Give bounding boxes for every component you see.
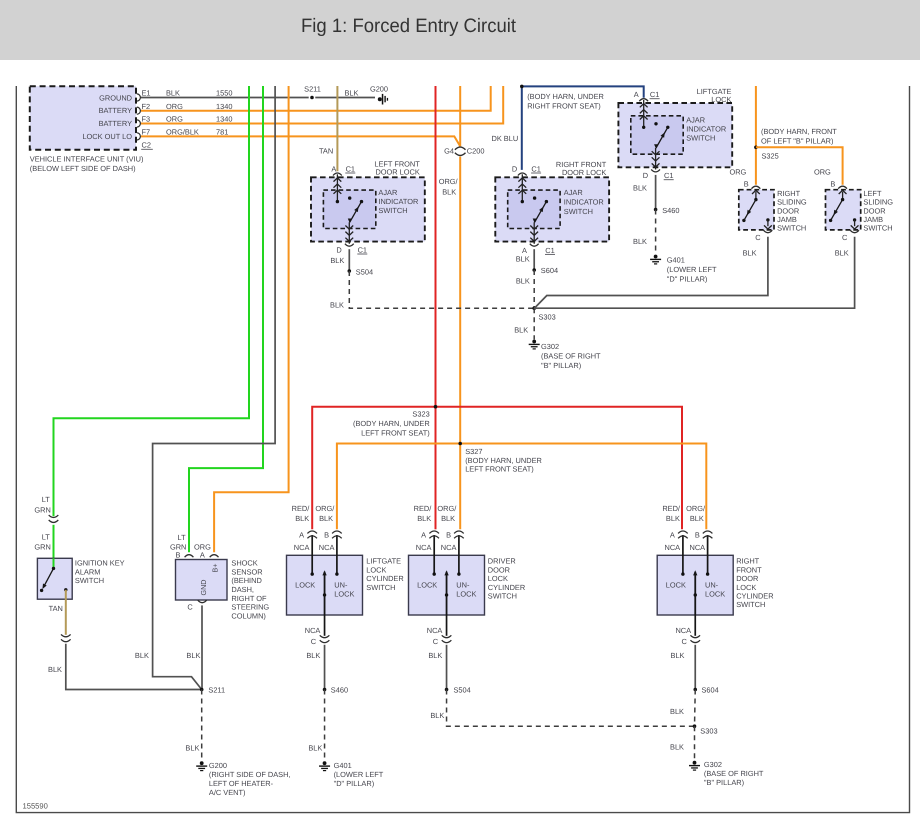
- wire shock sensor C to S211: [186, 605, 202, 689]
- liftgate lock cylinder switch inline connector B: [332, 531, 342, 538]
- right front door lock cylinder switch A drop wire: [682, 535, 684, 574]
- svg-text:RED/: RED/: [292, 504, 311, 513]
- wire F7 ORG/BLK to C200: [141, 136, 460, 146]
- svg-text:"D" PILLAR): "D" PILLAR): [667, 274, 708, 283]
- left sliding door jamb switch chevron: [839, 190, 847, 199]
- left front door lock ajar inner box: [323, 190, 375, 228]
- left front door lock top chevrons: [334, 174, 342, 201]
- right front door lock labels: [512, 160, 607, 216]
- svg-text:BATTERY: BATTERY: [99, 106, 132, 115]
- connector C200 G4: [444, 147, 484, 156]
- left sliding door jamb switch box: [826, 190, 861, 230]
- svg-text:781: 781: [216, 128, 228, 137]
- svg-text:BLK: BLK: [295, 514, 309, 523]
- liftgate lock cylinder switch B drop wire: [336, 535, 338, 574]
- wire F2 ORG: [141, 86, 491, 111]
- svg-text:BLK: BLK: [671, 651, 685, 660]
- svg-text:S211: S211: [208, 686, 225, 695]
- svg-text:UN-: UN-: [334, 581, 348, 590]
- svg-text:SWITCH: SWITCH: [564, 207, 593, 216]
- right front cylinder name: [736, 557, 773, 610]
- svg-text:ORG: ORG: [166, 102, 183, 111]
- splice S211 bottom: [200, 686, 225, 695]
- svg-text:SHOCK: SHOCK: [231, 559, 257, 568]
- svg-text:CYLINDER: CYLINDER: [736, 592, 773, 601]
- left sliding door jamb switch blade: [829, 198, 844, 222]
- svg-text:ORG: ORG: [729, 168, 746, 177]
- sheet number 155590: [23, 802, 48, 811]
- right front door lock cylinder switch contacts: [681, 572, 709, 575]
- svg-text:GRN: GRN: [34, 505, 50, 514]
- svg-text:UN-: UN-: [456, 581, 470, 590]
- svg-text:LIFTGATE: LIFTGATE: [366, 557, 401, 566]
- wire LT GRN bus A ignition: [54, 86, 250, 516]
- left sliding door jamb switch pin arc B: [838, 186, 847, 189]
- svg-text:ALARM: ALARM: [75, 567, 100, 576]
- right sliding door jamb switch chevron: [752, 190, 760, 199]
- inline connector LT GRN: [49, 515, 59, 522]
- svg-text:A/C VENT): A/C VENT): [209, 788, 246, 797]
- svg-text:1340: 1340: [216, 115, 232, 124]
- svg-text:BATTERY: BATTERY: [99, 119, 132, 128]
- liftgate lock pin arc top: [639, 99, 648, 102]
- svg-text:STEERING: STEERING: [231, 603, 269, 612]
- splice S504 bottom: [445, 686, 471, 695]
- splice S325: [754, 146, 779, 161]
- svg-text:LOCK: LOCK: [488, 574, 508, 583]
- svg-text:SWITCH: SWITCH: [863, 224, 892, 233]
- svg-text:(BASE OF RIGHT: (BASE OF RIGHT: [541, 352, 601, 361]
- svg-text:(BASE OF RIGHT: (BASE OF RIGHT: [704, 769, 764, 778]
- wire S504 to S303 dashed: [349, 271, 534, 308]
- svg-text:LEFT FRONT SEAT): LEFT FRONT SEAT): [465, 465, 534, 474]
- right front door lock ajar inner box: [508, 190, 560, 228]
- svg-text:RED/: RED/: [414, 504, 433, 513]
- svg-text:AJAR: AJAR: [564, 188, 583, 197]
- svg-text:S504: S504: [356, 268, 373, 277]
- LT GRN labels lower: [34, 533, 50, 552]
- svg-text:Fig 1: Forced Entry Circuit: Fig 1: Forced Entry Circuit: [301, 15, 517, 37]
- svg-text:A: A: [634, 90, 639, 99]
- svg-text:F2: F2: [142, 102, 151, 111]
- wire RED S323 bus: [312, 407, 682, 530]
- svg-text:C: C: [842, 233, 848, 242]
- svg-text:B: B: [446, 531, 451, 540]
- splice S460 bottom: [323, 686, 348, 695]
- svg-text:NCA: NCA: [294, 543, 310, 552]
- svg-text:NCA: NCA: [416, 543, 432, 552]
- wire S460 to G401 dashed: [633, 210, 656, 255]
- body harn right front seat caption: [527, 92, 604, 110]
- svg-text:(RIGHT SIDE OF DASH,: (RIGHT SIDE OF DASH,: [209, 770, 291, 779]
- right front door lock cylinder switch pin labels: [662, 504, 706, 660]
- svg-text:F7: F7: [142, 128, 151, 137]
- svg-text:GRN: GRN: [34, 542, 50, 551]
- svg-text:LOCK: LOCK: [711, 95, 731, 104]
- ORG/BLK wire label: [439, 177, 459, 197]
- right front door lock bottom labels: [516, 246, 555, 264]
- svg-text:DOOR: DOOR: [736, 574, 758, 583]
- svg-text:SWITCH: SWITCH: [366, 583, 395, 592]
- svg-text:NCA: NCA: [689, 543, 705, 552]
- wire right jamb C to S303: [534, 237, 768, 308]
- svg-text:RIGHT OF: RIGHT OF: [231, 594, 267, 603]
- right front door lock top chevrons: [518, 174, 526, 201]
- right front door lock pin arc bottom: [530, 244, 539, 247]
- svg-text:G4: G4: [444, 147, 454, 156]
- svg-text:AJAR: AJAR: [378, 188, 397, 197]
- svg-text:IGNITION KEY: IGNITION KEY: [75, 559, 125, 568]
- svg-text:LOCK: LOCK: [334, 589, 354, 598]
- right front door lock cylinder switch wire C to splice: [694, 645, 696, 690]
- liftgate lock cylinder switch box: [287, 555, 363, 615]
- svg-text:LOCK: LOCK: [295, 581, 315, 590]
- shock sensor rotated pin names: [199, 564, 220, 596]
- driver door lock cylinder switch B drop wire: [458, 535, 460, 574]
- wire ORG C200 upper: [459, 86, 461, 146]
- svg-text:ORG: ORG: [194, 542, 211, 551]
- svg-text:RIGHT FRONT SEAT): RIGHT FRONT SEAT): [527, 101, 601, 110]
- svg-text:FRONT: FRONT: [736, 565, 762, 574]
- svg-text:NCA: NCA: [664, 543, 680, 552]
- left front door lock labels: [331, 160, 420, 216]
- shock sensor labels: [170, 533, 269, 621]
- wire TAN bus: [319, 86, 337, 171]
- wire E1 BLK 1550 ground wire: [141, 97, 375, 99]
- wire ORG bus right S325: [755, 86, 757, 185]
- svg-text:LEFT FRONT SEAT): LEFT FRONT SEAT): [361, 428, 430, 437]
- svg-text:ORG/: ORG/: [686, 504, 706, 513]
- svg-text:C1: C1: [545, 246, 554, 255]
- svg-text:C200: C200: [467, 147, 485, 156]
- svg-text:NCA: NCA: [305, 626, 321, 635]
- svg-text:INDICATOR: INDICATOR: [378, 197, 418, 206]
- svg-text:GRN: GRN: [170, 542, 186, 551]
- svg-text:BLK: BLK: [442, 187, 456, 196]
- left sliding door jamb switch C contact: [851, 218, 859, 229]
- svg-text:S325: S325: [762, 151, 779, 160]
- liftgate lock switch blade: [654, 127, 668, 149]
- svg-text:BLK: BLK: [743, 249, 757, 258]
- right front door lock cylinder switch inline connector B: [703, 531, 713, 538]
- svg-text:NCA: NCA: [319, 543, 335, 552]
- wire S303 to G302 bottom dashed: [670, 726, 694, 760]
- right sliding door jamb switch box: [739, 190, 774, 230]
- liftgate lock cylinder switch blade: [322, 570, 326, 615]
- svg-text:LT: LT: [42, 495, 51, 504]
- svg-text:G200: G200: [209, 761, 227, 770]
- svg-text:D: D: [512, 164, 517, 173]
- svg-text:BLK: BLK: [670, 707, 684, 716]
- svg-text:BLK: BLK: [690, 514, 704, 523]
- svg-text:ORG/: ORG/: [315, 504, 335, 513]
- wire F3 ORG: [141, 86, 503, 124]
- svg-text:SWITCH: SWITCH: [686, 134, 715, 143]
- DK BLU label: [491, 134, 518, 143]
- VIU pin labels: [141, 89, 232, 150]
- svg-text:DOOR LOCK: DOOR LOCK: [562, 168, 606, 177]
- svg-text:BLK: BLK: [330, 256, 344, 265]
- svg-text:UN-: UN-: [705, 581, 719, 590]
- liftgate lock pin arc bottom: [651, 169, 660, 172]
- splice S604 bottom: [693, 686, 718, 695]
- liftgate lock cylinder switch pin labels: [292, 504, 336, 660]
- splice S504 mid: [348, 268, 374, 277]
- ORG labels jamb: [729, 168, 831, 177]
- svg-text:SWITCH: SWITCH: [777, 224, 806, 233]
- right front door lock cylinder switch blade: [693, 570, 697, 615]
- svg-text:BLK: BLK: [666, 514, 680, 523]
- svg-text:G401: G401: [334, 761, 352, 770]
- svg-text:S460: S460: [662, 206, 679, 215]
- ground G401 bottom: [319, 761, 384, 788]
- wire left front D to S504: [348, 249, 350, 271]
- svg-text:G302: G302: [704, 760, 722, 769]
- wire S604 to S303 bottom dashed: [670, 690, 695, 727]
- svg-text:(BEHIND: (BEHIND: [231, 576, 261, 585]
- liftgate lock cylinder switch inline connector C: [320, 635, 330, 642]
- svg-text:TAN: TAN: [49, 604, 63, 613]
- svg-text:LEFT OF HEATER-: LEFT OF HEATER-: [209, 779, 274, 788]
- svg-text:BLK: BLK: [166, 89, 180, 98]
- svg-text:(BELOW LEFT SIDE OF DASH): (BELOW LEFT SIDE OF DASH): [30, 164, 136, 173]
- svg-text:BLK: BLK: [186, 651, 200, 660]
- svg-text:"B" PILLAR): "B" PILLAR): [704, 778, 744, 787]
- driver door lock cylinder switch pin labels: [414, 504, 458, 660]
- svg-text:C: C: [311, 637, 317, 646]
- liftgate lock bottom labels: [633, 171, 674, 192]
- svg-text:C1: C1: [346, 164, 355, 173]
- svg-text:S303: S303: [700, 727, 717, 736]
- svg-text:NCA: NCA: [675, 626, 691, 635]
- ground G302 mid: [529, 340, 601, 370]
- svg-text:RED/: RED/: [662, 504, 681, 513]
- driver door lock cylinder switch inline connector A: [429, 531, 439, 538]
- left front door lock pin arc top: [333, 173, 342, 176]
- VIU caption: [30, 155, 144, 174]
- liftgate cylinder name: [366, 557, 403, 592]
- svg-text:LT: LT: [42, 533, 51, 542]
- liftgate lock cylinder switch exit wire: [324, 615, 326, 636]
- svg-text:BLK: BLK: [185, 744, 199, 753]
- svg-text:BLK: BLK: [48, 665, 62, 674]
- svg-text:OF LEFT "B" PILLAR): OF LEFT "B" PILLAR): [761, 137, 833, 146]
- svg-text:G200: G200: [370, 84, 388, 93]
- svg-text:LOCK: LOCK: [417, 581, 437, 590]
- svg-text:S211: S211: [304, 84, 321, 93]
- driver door lock cylinder switch exit wire: [446, 615, 448, 636]
- right front door lock cylinder switch inline connector C: [690, 635, 700, 642]
- svg-text:ORG/BLK: ORG/BLK: [166, 128, 199, 137]
- svg-text:BLK: BLK: [306, 651, 320, 660]
- liftgate lock bottom chevrons: [652, 148, 660, 170]
- right front door lock cylinder switch B drop wire: [707, 535, 709, 574]
- svg-text:B: B: [744, 180, 749, 189]
- right sliding door jamb switch C contact: [764, 218, 772, 229]
- right sliding door jamb switch pin arc C: [764, 230, 773, 233]
- left front door lock bottom labels: [330, 245, 367, 265]
- svg-text:(BODY HARN, UNDER: (BODY HARN, UNDER: [465, 456, 542, 465]
- svg-text:BLK: BLK: [135, 651, 149, 660]
- splice S323: [353, 405, 437, 437]
- svg-text:BLK: BLK: [308, 744, 322, 753]
- svg-text:C: C: [755, 233, 761, 242]
- svg-text:INDICATOR: INDICATOR: [564, 198, 604, 207]
- svg-text:BLK: BLK: [330, 301, 344, 310]
- svg-text:E1: E1: [142, 89, 151, 98]
- svg-text:D: D: [643, 171, 648, 180]
- svg-text:B: B: [695, 531, 700, 540]
- svg-text:SWITCH: SWITCH: [75, 576, 104, 585]
- ignition key alarm switch contacts: [40, 558, 68, 592]
- left front door lock switch contacts: [336, 196, 364, 203]
- splice S460 mid: [654, 206, 680, 215]
- svg-text:B: B: [830, 180, 835, 189]
- svg-text:VEHICLE INTERFACE UNIT (VIU): VEHICLE INTERFACE UNIT (VIU): [30, 155, 144, 164]
- svg-text:DRIVER: DRIVER: [488, 557, 516, 566]
- svg-text:AJAR: AJAR: [686, 115, 705, 124]
- liftgate lock switch contacts: [642, 122, 670, 129]
- liftgate lock box: [618, 103, 732, 167]
- svg-text:BLK: BLK: [319, 514, 333, 523]
- driver cylinder name: [488, 557, 525, 601]
- ground G200 bottom: [196, 761, 290, 797]
- liftgate lock labels: [634, 87, 732, 143]
- svg-text:C1: C1: [531, 164, 540, 173]
- svg-text:SWITCH: SWITCH: [488, 592, 517, 601]
- svg-text:NCA: NCA: [427, 626, 443, 635]
- left front door lock bottom chevrons: [345, 222, 353, 244]
- right front door lock cylinder switch exit wire: [694, 615, 696, 636]
- svg-text:155590: 155590: [23, 802, 48, 811]
- right front door lock switch blade: [533, 202, 547, 224]
- ground G401 mid: [650, 255, 717, 284]
- right sliding door jamb switch pin arc B: [752, 186, 761, 189]
- driver door lock cylinder switch blade: [444, 570, 448, 615]
- shock sensor pin arcs: [185, 555, 219, 603]
- wire liftgate D to S460: [655, 175, 657, 210]
- svg-text:G302: G302: [541, 342, 559, 351]
- wire ignition BLK to S211: [48, 644, 202, 690]
- VIU pin bumps: [137, 94, 141, 140]
- left front door lock pin arc bottom: [345, 244, 354, 247]
- right front door lock box: [495, 177, 609, 241]
- svg-text:LOCK: LOCK: [366, 565, 386, 574]
- liftgate lock ajar inner box: [631, 116, 683, 154]
- svg-text:SENSOR: SENSOR: [231, 567, 262, 576]
- svg-text:RIGHT: RIGHT: [736, 557, 759, 566]
- driver door lock cylinder switch LOCK UNLOCK text: [417, 581, 476, 599]
- BLK bus label bottom: [135, 651, 149, 660]
- svg-text:LOCK: LOCK: [666, 581, 686, 590]
- wire ORG bus to shock sensor: [214, 86, 289, 552]
- right front door lock pin arc top: [518, 173, 527, 176]
- svg-text:BLK: BLK: [633, 237, 647, 246]
- svg-text:BLK: BLK: [441, 514, 455, 523]
- svg-text:C1: C1: [358, 245, 367, 254]
- wire left jamb C to S303: [534, 237, 854, 308]
- left sliding door jamb switch pin arc C: [850, 230, 859, 233]
- liftgate lock cylinder switch LOCK UNLOCK text: [295, 581, 354, 599]
- svg-text:ORG/: ORG/: [439, 177, 459, 186]
- svg-text:BLK: BLK: [516, 254, 530, 263]
- svg-text:COLUMN): COLUMN): [231, 611, 266, 620]
- vehicle interface unit VIU box: [30, 86, 136, 150]
- svg-text:C: C: [681, 637, 687, 646]
- wire ORG C200 to S327: [459, 157, 461, 444]
- wire S460 to G401 dashed: [308, 690, 324, 761]
- wire ORG branch to left sliding jamb: [756, 147, 843, 185]
- LT GRN labels upper: [34, 495, 50, 514]
- driver door lock cylinder switch inline connector B: [454, 531, 464, 538]
- svg-text:1340: 1340: [216, 102, 232, 111]
- right front door lock bottom chevrons: [530, 222, 538, 244]
- svg-text:GND: GND: [199, 580, 208, 596]
- svg-text:S604: S604: [541, 266, 558, 275]
- svg-text:(LOWER LEFT: (LOWER LEFT: [667, 265, 717, 274]
- wire RED bus: [435, 86, 437, 407]
- title bar: [0, 0, 920, 60]
- svg-text:S504: S504: [454, 686, 471, 695]
- ground G302 bottom: [689, 760, 764, 787]
- svg-text:(LOWER LEFT: (LOWER LEFT: [334, 770, 384, 779]
- driver door lock cylinder switch contacts: [433, 572, 461, 575]
- svg-text:BLK: BLK: [345, 89, 359, 98]
- svg-text:ORG: ORG: [166, 115, 183, 124]
- ground G200 top: [370, 84, 388, 104]
- svg-text:G401: G401: [667, 256, 685, 265]
- svg-text:BLK: BLK: [417, 514, 431, 523]
- liftgate lock cylinder switch wire C to splice: [324, 645, 326, 690]
- svg-text:SWITCH: SWITCH: [378, 206, 407, 215]
- liftgate lock cylinder switch A drop wire: [311, 535, 313, 574]
- right sliding door jamb switch blade: [742, 198, 757, 222]
- svg-text:1550: 1550: [216, 89, 232, 98]
- splice S303 bottom: [693, 724, 718, 735]
- svg-text:BLK: BLK: [670, 743, 684, 752]
- svg-text:BLK: BLK: [516, 277, 530, 286]
- left front door lock box: [311, 177, 425, 241]
- svg-text:S323: S323: [412, 410, 429, 419]
- svg-text:LT: LT: [178, 533, 187, 542]
- svg-text:DK BLU: DK BLU: [491, 134, 518, 143]
- driver door lock cylinder switch inline connector C: [442, 635, 452, 642]
- svg-text:(BODY HARN, FRONT: (BODY HARN, FRONT: [761, 127, 837, 136]
- splice S327: [458, 442, 541, 474]
- svg-text:BLK: BLK: [835, 249, 849, 258]
- right front door lock cylinder switch box: [657, 555, 733, 615]
- svg-text:C2: C2: [142, 141, 151, 150]
- right front door lock cylinder switch LOCK UNLOCK text: [666, 581, 725, 599]
- svg-text:(BODY HARN, UNDER: (BODY HARN, UNDER: [527, 92, 604, 101]
- wire DK BLU bus: [520, 85, 644, 170]
- body harn left B pillar caption: [761, 127, 837, 145]
- wire S303 to G302 dashed: [514, 308, 534, 339]
- svg-text:"D" PILLAR): "D" PILLAR): [334, 779, 375, 788]
- svg-text:C1: C1: [650, 90, 659, 99]
- svg-text:B: B: [176, 550, 181, 559]
- svg-text:A: A: [421, 531, 426, 540]
- svg-text:"B" PILLAR): "B" PILLAR): [541, 361, 581, 370]
- driver door lock cylinder switch A drop wire: [433, 535, 435, 574]
- svg-text:BLK: BLK: [430, 711, 444, 720]
- wire LT GRN lower to ignition switch: [53, 525, 55, 569]
- svg-text:LOCK OUT LO: LOCK OUT LO: [82, 132, 132, 141]
- splice S604 mid: [532, 266, 558, 275]
- wire S504 to S303 bottom dashed: [430, 690, 694, 727]
- wire S211 to G200 dashed: [185, 690, 201, 761]
- svg-text:D: D: [336, 245, 341, 254]
